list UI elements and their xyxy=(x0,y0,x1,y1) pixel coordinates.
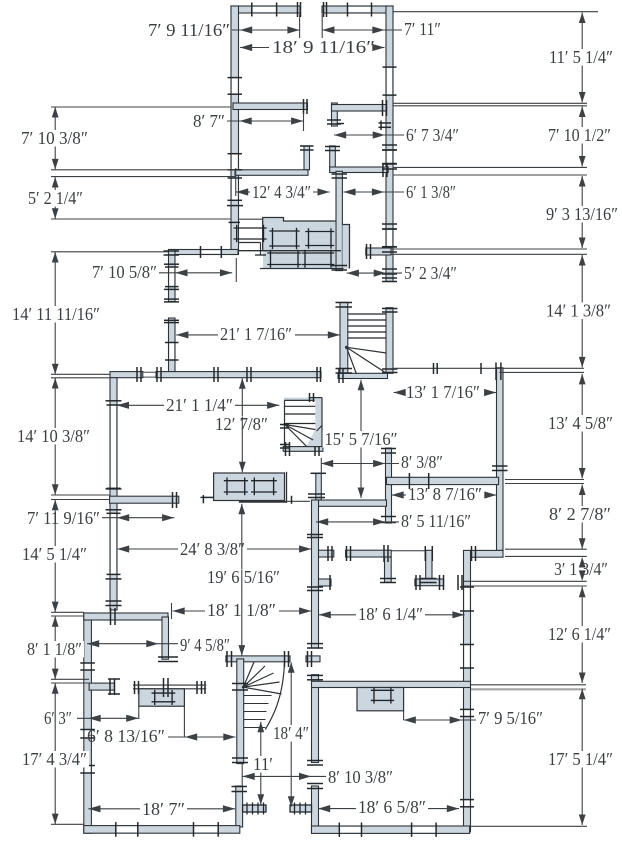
svg-text:7′ 9 11/16″: 7′ 9 11/16″ xyxy=(148,20,230,40)
kitchen appliance D xyxy=(302,252,334,254)
svg-text:7′ 10 1/2″: 7′ 10 1/2″ xyxy=(548,125,611,145)
window in kitchen left wall upper xyxy=(170,267,175,287)
window bottom-right wall a xyxy=(339,827,361,832)
dimension 5' 2 1/4" (left) xyxy=(54,177,56,219)
svg-text:7′ 9 5/16″: 7′ 9 5/16″ xyxy=(478,708,543,728)
dimension 12' 4 3/4" xyxy=(236,191,250,193)
extension line left y683 xyxy=(51,682,89,684)
dimension 18' 4" (mid) xyxy=(290,662,292,807)
tick marks 8ft7 wall right end xyxy=(303,99,305,114)
kitchen refrigerator box xyxy=(234,227,267,229)
stair S2 body xyxy=(284,398,322,451)
wall: bottom-left room left exterior xyxy=(84,613,92,833)
wall: stair3 top xyxy=(226,656,290,662)
tick marks center-left vertical xyxy=(307,534,323,536)
extension line left y169.8 xyxy=(51,169,236,171)
wall: long horizontal main left part xyxy=(110,372,143,378)
window bottom-left wall a xyxy=(116,827,138,833)
window left wall b xyxy=(85,730,91,739)
island block xyxy=(214,473,285,501)
wall: kitchen left vertical lower xyxy=(169,318,176,372)
tick marks stub right section xyxy=(327,119,341,121)
extension x235.7 xyxy=(235,168,237,196)
label 8' 1 1/8" xyxy=(25,641,84,658)
wall: mid vertical between kitchen and hall xyxy=(336,171,342,270)
wall: hall horizontal main xyxy=(346,550,392,557)
wall: jog horizontal xyxy=(471,550,504,557)
dimension 6' 1 3/8" xyxy=(343,191,404,193)
tick at stub y579 end xyxy=(329,575,331,590)
svg-text:12′ 4 3/4″: 12′ 4 3/4″ xyxy=(252,182,311,202)
dimension 7' 9 11/16" xyxy=(232,29,300,31)
dimension 11' 5 1/4" (right) xyxy=(581,13,583,103)
wall: bath top horizontal xyxy=(387,477,499,484)
kitchen counter top edge xyxy=(263,218,336,251)
extension line left y219 xyxy=(51,218,231,220)
tick marks long wall xyxy=(136,367,138,382)
kitchen appliance B xyxy=(305,231,334,233)
extension line left y616 xyxy=(51,615,84,617)
extension line left y612.3 xyxy=(51,611,84,613)
svg-text:9′ 4 5/8″: 9′ 4 5/8″ xyxy=(180,635,230,655)
wall: stair3 left xyxy=(237,659,244,764)
svg-text:18′ 9 11/16″: 18′ 9 11/16″ xyxy=(272,37,375,57)
fireplace F2 firebox xyxy=(371,689,394,691)
svg-text:11′ 5 1/4″: 11′ 5 1/4″ xyxy=(549,47,613,67)
island bottom thin line to wall xyxy=(286,500,310,502)
wall: stub from center wall at y579 xyxy=(319,579,332,586)
extension line right y586 xyxy=(464,585,587,587)
window in kitchen left wall lower xyxy=(170,343,175,361)
svg-text:8′ 10 3/8″: 8′ 10 3/8″ xyxy=(328,767,393,787)
dimension 17' 4 3/4" (left) xyxy=(54,683,56,824)
tick marks stair3 left wall xyxy=(232,683,248,685)
dimension 6' 3" xyxy=(77,717,138,719)
svg-text:12′ 6 1/4″: 12′ 6 1/4″ xyxy=(548,624,611,644)
svg-text:17′ 4 3/4″: 17′ 4 3/4″ xyxy=(22,749,87,769)
dimension 9' 3 13/16" (right) xyxy=(581,176,583,248)
svg-text:15′ 5 7/16″: 15′ 5 7/16″ xyxy=(325,429,398,449)
opening in left interior wall a xyxy=(111,405,116,488)
svg-text:6′ 1 3/8″: 6′ 1 3/8″ xyxy=(406,182,456,202)
extension line right y684.8 xyxy=(471,684,586,686)
wall: center-left vertical lower xyxy=(312,786,319,832)
window left wall c xyxy=(85,766,91,774)
extension line left y679.3 xyxy=(51,678,89,680)
extension line right y254.3 xyxy=(391,253,587,255)
extension x236.3 near kitchen xyxy=(235,258,237,282)
wall: room divider 8ft7 top xyxy=(233,103,308,110)
svg-text:7′ 11 9/16″: 7′ 11 9/16″ xyxy=(27,508,100,528)
svg-text:11′: 11′ xyxy=(253,754,273,774)
extension line left y107 xyxy=(51,106,231,108)
tick marks fireplace1 wall xyxy=(134,681,136,694)
tick marks left interior vertical xyxy=(106,400,122,402)
tick marks stair1 bottom wall xyxy=(338,369,340,383)
stair S2 bottom wall xyxy=(283,447,323,452)
wall: right stairwell vertical segment xyxy=(386,308,393,374)
label 15' 5 7/16" xyxy=(323,431,400,448)
dimension 13' 4 5/8" (right) xyxy=(581,374,583,479)
dimension 19' 6 5/16" (mid) xyxy=(241,504,243,656)
door opening upper-left wall mid xyxy=(232,154,238,170)
extension line right y103.3 xyxy=(393,102,587,104)
dimension 9' 4 5/8" xyxy=(87,643,178,645)
dimension 8' 5 11/16" xyxy=(316,521,399,523)
dimension 7' 9 5/16" xyxy=(404,719,476,721)
tick marks y496 wall right end xyxy=(172,492,174,508)
svg-text:5′ 2 3/4″: 5′ 2 3/4″ xyxy=(404,263,457,283)
extension jamb x322.2 xyxy=(321,14,323,38)
line through label space 12' 7/8 xyxy=(241,417,243,434)
dimension 6' 7 3/4" xyxy=(334,134,404,136)
stair S3 winder fan xyxy=(243,662,254,687)
label 7' 10 1/2" xyxy=(546,127,613,144)
label 9' 3 13/16" xyxy=(544,206,620,223)
tick marks bottom-left right vertical end xyxy=(158,656,178,658)
label 11' 5 1/4" xyxy=(547,49,615,66)
svg-text:5′ 2 1/4″: 5′ 2 1/4″ xyxy=(28,188,83,208)
wall: left interior vertical xyxy=(110,378,117,610)
extension x321.3 above stub xyxy=(320,458,322,474)
kitchen counter bottom edge xyxy=(260,268,344,270)
opening in left interior wall b xyxy=(111,513,116,574)
dimension 7' 10 5/8" xyxy=(159,272,232,274)
extension stair hall left x242 xyxy=(241,764,243,786)
door in upper-right wall xyxy=(387,150,392,164)
dimension 12' 6 1/4" (right) xyxy=(581,587,583,683)
label 14' 11 11/16" xyxy=(10,306,102,323)
svg-text:24′ 8 3/8″: 24′ 8 3/8″ xyxy=(180,539,245,559)
label 13' 4 5/8" xyxy=(546,415,615,432)
wall: closet vertical b xyxy=(426,550,432,582)
wall: upper-left exterior vertical xyxy=(231,6,239,255)
svg-text:6′ 8 13/16″: 6′ 8 13/16″ xyxy=(87,726,165,746)
tick marks bath right wall xyxy=(381,448,396,450)
tick marks stair hall lower corner xyxy=(232,786,248,788)
wall: bottom-left room right vertical xyxy=(162,617,169,659)
tick marks right-mid vertical xyxy=(492,465,508,467)
door right interior wall a xyxy=(465,587,470,611)
svg-text:18′ 6 5/8″: 18′ 6 5/8″ xyxy=(358,797,426,817)
extension line right y483.5 xyxy=(505,483,584,485)
svg-text:7′ 11″: 7′ 11″ xyxy=(404,19,441,39)
dimension 18' 7" xyxy=(88,808,140,810)
svg-text:6′ 7 3/4″: 6′ 7 3/4″ xyxy=(406,125,459,145)
island sink B xyxy=(251,480,277,482)
dimension 14' 5 1/4" (left) xyxy=(54,500,56,612)
tick marks closet bottom right xyxy=(382,163,384,177)
svg-text:18′ 6 1/4″: 18′ 6 1/4″ xyxy=(358,604,423,624)
label 12' 6 1/4" xyxy=(546,626,613,643)
wall: stair3 top right piece xyxy=(306,656,320,662)
tick marks closet left wall top xyxy=(325,146,340,148)
tick marks kitchen left wall xyxy=(164,263,179,265)
wall: closet left vertical xyxy=(330,146,336,171)
label 7' 10 3/8" xyxy=(19,130,90,147)
stair S2 winder lines xyxy=(285,425,313,441)
door opening upper-left wall lower xyxy=(232,178,238,200)
dimension 21' 1 7/16" xyxy=(176,334,218,336)
stair S2 treads xyxy=(285,405,315,407)
tick marks stair3 top wall xyxy=(226,651,228,667)
extension fireplace1 left xyxy=(138,706,140,719)
label 17' 4 3/4" xyxy=(20,751,89,768)
stair S1 winder lines xyxy=(347,347,387,353)
tick marks kitchen left wall lower xyxy=(164,319,179,321)
wall: horizontal divider right section xyxy=(332,105,387,112)
wall: center-left vertical upper xyxy=(312,500,319,648)
tick marks bottom-left top wall xyxy=(110,608,112,625)
kitchen appliance C xyxy=(267,252,301,254)
dimension 8' 7" xyxy=(227,120,303,122)
door header line in hall xyxy=(391,550,426,552)
svg-text:8′ 5 11/16″: 8′ 5 11/16″ xyxy=(401,511,471,531)
tick marks left wall stub xyxy=(108,678,120,680)
extension line left y176.6 xyxy=(51,176,236,178)
svg-text:7′ 10 5/8″: 7′ 10 5/8″ xyxy=(92,262,157,282)
extension line right y479.5 xyxy=(505,479,584,481)
wall: long horizontal bottom-right section xyxy=(312,681,471,687)
wall: stair hall left lower corner xyxy=(236,786,243,827)
svg-text:8′ 1 1/8″: 8′ 1 1/8″ xyxy=(27,639,82,659)
window left wall a xyxy=(85,663,91,670)
fireplace F2 box xyxy=(357,688,404,711)
wall: kitchen left vertical upper xyxy=(169,250,176,302)
dimension 14' 1 3/8" (right) xyxy=(581,255,583,367)
svg-text:21′ 1 7/16″: 21′ 1 7/16″ xyxy=(220,324,292,344)
tick marks closet verticals bottom xyxy=(380,578,396,580)
wall: right-mid vertical upper xyxy=(497,368,504,551)
dimension 18' 9 11/16" xyxy=(240,47,269,49)
window in top wall right xyxy=(348,7,372,12)
svg-text:19′ 6 5/16″: 19′ 6 5/16″ xyxy=(207,567,280,587)
window bottom-right wall b xyxy=(412,827,437,832)
wall: stair1 left xyxy=(340,302,348,376)
railing line yB372 xyxy=(499,371,584,373)
fireplace F1 mantel wall lines xyxy=(133,684,206,686)
tick marks bath top wall xyxy=(408,473,410,489)
wall: center-left vertical mid xyxy=(312,675,319,763)
wall: hall stub from center wall xyxy=(319,550,334,557)
label 14' 5 1/4" xyxy=(20,546,89,563)
wall: stub below top wall right section xyxy=(332,103,338,126)
dimension 15' 5 7/16" (mid) xyxy=(360,380,362,498)
window in kitchen top wall xyxy=(201,251,222,254)
wall30 top tick pair xyxy=(308,493,325,495)
wall: stub left of bath xyxy=(316,473,322,500)
wall: right interior vertical long xyxy=(464,550,471,831)
dimension 11' (mid) xyxy=(260,722,262,805)
label 5' 2 1/4" xyxy=(26,190,85,207)
dimension 13' 8 7/16" xyxy=(392,494,407,496)
svg-text:6′ 3″: 6′ 3″ xyxy=(44,708,72,728)
tick marks kitchen top wall corner xyxy=(164,250,180,252)
wall: horizontal at y496 left section xyxy=(110,496,179,503)
svg-text:14′ 1 3/8″: 14′ 1 3/8″ xyxy=(546,301,611,321)
extension line right y249 xyxy=(391,248,587,250)
wall: bottom-left room top xyxy=(84,613,168,620)
dimension 7' 11" xyxy=(322,29,402,31)
tick marks closet small horizontal xyxy=(415,575,417,590)
svg-text:7′ 10 3/8″: 7′ 10 3/8″ xyxy=(21,128,88,148)
label 11' xyxy=(251,756,275,773)
tick marks on top wall right segment xyxy=(323,2,325,17)
tick marks on upper-left wall xyxy=(227,205,243,207)
label 14' 1 3/8" xyxy=(544,303,613,320)
window bottom-left wall b xyxy=(194,827,219,833)
tick marks stub y248 xyxy=(366,244,368,259)
svg-text:14′ 10 3/8″: 14′ 10 3/8″ xyxy=(17,426,90,446)
dimension 13' 1 7/16" xyxy=(394,392,405,394)
dimension 18' 6 5/8" xyxy=(318,808,356,810)
tick marks hall horizontal wall xyxy=(327,546,329,561)
wall: door jamb stub right of 8ft7 room xyxy=(304,146,310,170)
island bottom heavy edge xyxy=(239,501,286,503)
island right second edge xyxy=(286,472,288,503)
label 18' 4" xyxy=(271,725,311,742)
dimension 8' 2 7/8" (right) xyxy=(581,485,583,549)
window right wall a xyxy=(465,709,470,716)
wall: upper-right exterior vertical xyxy=(386,6,393,282)
dimension 21' 1 1/4" xyxy=(117,404,164,406)
stair S1 treads xyxy=(348,313,387,315)
svg-text:13′ 1 7/16″: 13′ 1 7/16″ xyxy=(406,382,480,402)
extension line left y495 xyxy=(51,494,110,496)
extension line right y581.3 xyxy=(464,580,587,582)
wall: closet vertical a xyxy=(385,557,392,582)
wall: kitchen top horizontal xyxy=(169,250,239,255)
tick at wall23 top xyxy=(495,363,497,381)
window in upper-right wall xyxy=(387,67,392,95)
extension line right y11.7 xyxy=(393,11,598,13)
window in top wall left xyxy=(252,7,277,12)
stair S2 outline xyxy=(284,399,314,401)
wall: stub right of hall at y248 xyxy=(366,248,391,255)
wall: mid-right vertical (bath) xyxy=(386,448,392,523)
svg-text:14′ 11 11/16″: 14′ 11 11/16″ xyxy=(12,304,100,324)
label 3' 1 3/4" xyxy=(552,561,610,578)
tick marks on upper-right wall xyxy=(382,144,397,146)
extension line left y824.3 xyxy=(51,823,84,825)
kitchen appliance A xyxy=(269,230,299,232)
wall: long horizontal main right part xyxy=(156,372,321,378)
wall: room divider 8ft7 bottom xyxy=(235,170,308,176)
extension x303.5 xyxy=(303,112,305,131)
gray line y689.3 xyxy=(471,688,586,690)
dimension 3' 1 3/4" (right, inward arrows) xyxy=(579,557,586,568)
extension line left y377.8 xyxy=(51,377,110,379)
extension jamb x299.6 xyxy=(299,14,301,38)
label 19' 6 5/16" xyxy=(205,569,282,586)
kitchen lower-left box xyxy=(239,242,261,244)
dimension 24' 8 3/8" xyxy=(117,548,178,550)
railing line yA368 xyxy=(392,367,584,369)
label 17' 5 1/4" xyxy=(546,751,615,768)
window in upper-left wall xyxy=(232,78,238,95)
kitchen counter left edge ticks xyxy=(255,254,266,256)
wall: bottom exterior left xyxy=(84,826,240,834)
dimension 14' 11 11/16" (left) xyxy=(54,252,56,374)
svg-text:14′ 5 1/4″: 14′ 5 1/4″ xyxy=(22,544,87,564)
label 12' 7/8" xyxy=(213,416,270,433)
fireplace F1 firebox xyxy=(152,692,176,694)
dimension 14' 10 3/8" (left) xyxy=(54,378,56,495)
door right interior wall b xyxy=(465,645,470,669)
stub ticks xyxy=(311,472,327,474)
wall: top exterior left segment xyxy=(231,6,300,13)
kitchen counter block xyxy=(263,218,336,269)
svg-text:21′ 1 1/4″: 21′ 1 1/4″ xyxy=(166,395,233,415)
svg-text:8′ 7″: 8′ 7″ xyxy=(193,111,225,131)
extension x171.5 xyxy=(171,603,173,619)
svg-text:13′ 4 5/8″: 13′ 4 5/8″ xyxy=(548,413,613,433)
extension line left y374.3 xyxy=(51,373,110,375)
extension line right y105.8 xyxy=(393,105,587,107)
island right outside tick xyxy=(291,496,293,504)
dimension 7' 11 9/16" xyxy=(102,517,174,519)
wall: closet small horizontal xyxy=(415,579,444,586)
dimension 8' 1 1/8" (left) xyxy=(54,616,56,679)
window in upper-right wall b xyxy=(387,229,392,247)
door threshold lines in long wall xyxy=(143,371,156,373)
stair S3 outer curve xyxy=(265,663,284,730)
tick marks stairwell right wall xyxy=(382,308,398,310)
fireplace F1 box xyxy=(139,689,185,706)
svg-text:12′ 7/8″: 12′ 7/8″ xyxy=(215,414,268,434)
island sink A xyxy=(224,480,248,482)
kitchen counter mid edge xyxy=(239,250,342,252)
wall: bath bottom horizontal xyxy=(312,500,387,506)
jamb stub on right wall y125 xyxy=(379,122,392,124)
wall: stair1 bottom xyxy=(338,373,388,378)
dimension 8' 3/8" xyxy=(321,463,399,465)
dimension 7' 10 1/2" (right) xyxy=(581,107,583,167)
tick marks on top wall left segment xyxy=(297,2,299,17)
label 8' 2 7/8" xyxy=(547,506,613,523)
tick marks jog wall left end xyxy=(471,546,473,561)
tick marks divider right section xyxy=(382,100,384,116)
extension line right y549.2 xyxy=(505,548,587,550)
extension line left y499.5 xyxy=(51,499,110,501)
extension line right y556.4 xyxy=(505,555,587,557)
dimension 12' 7/8" (mid) xyxy=(241,378,243,472)
svg-text:8′ 2 7/8″: 8′ 2 7/8″ xyxy=(549,504,611,524)
extension line right y826.3 xyxy=(470,825,587,827)
island left stub ticks xyxy=(201,496,214,498)
label 14' 10 3/8" xyxy=(15,428,92,445)
dimension 6' 8 13/16" xyxy=(168,736,236,738)
tick marks jamb stub xyxy=(300,145,314,147)
extension line left y251.8 xyxy=(51,251,169,253)
stair S3 treads xyxy=(244,695,272,697)
svg-text:18′ 7″: 18′ 7″ xyxy=(142,799,185,819)
tick marks stair2 xyxy=(280,424,289,426)
extension line right y167.4 xyxy=(393,166,587,168)
hatched wall stub left of lower door xyxy=(243,805,266,812)
window right wall b xyxy=(465,800,470,807)
extension fireplace1 right xyxy=(183,706,185,737)
dimension 17' 5 1/4" (right) xyxy=(581,689,583,825)
dimension 5' 2 3/4" xyxy=(347,272,402,274)
extension line right y175 xyxy=(393,174,587,176)
dimension 7' 10 3/8" (left) xyxy=(54,107,56,169)
wall: top exterior right segment xyxy=(322,6,393,13)
dimension 8' 10 3/8" xyxy=(243,775,327,777)
tick marks stair1 left wall xyxy=(336,302,353,304)
dimension 18' 6 1/4" xyxy=(319,614,356,616)
wall: stub on left wall xyxy=(89,683,114,690)
